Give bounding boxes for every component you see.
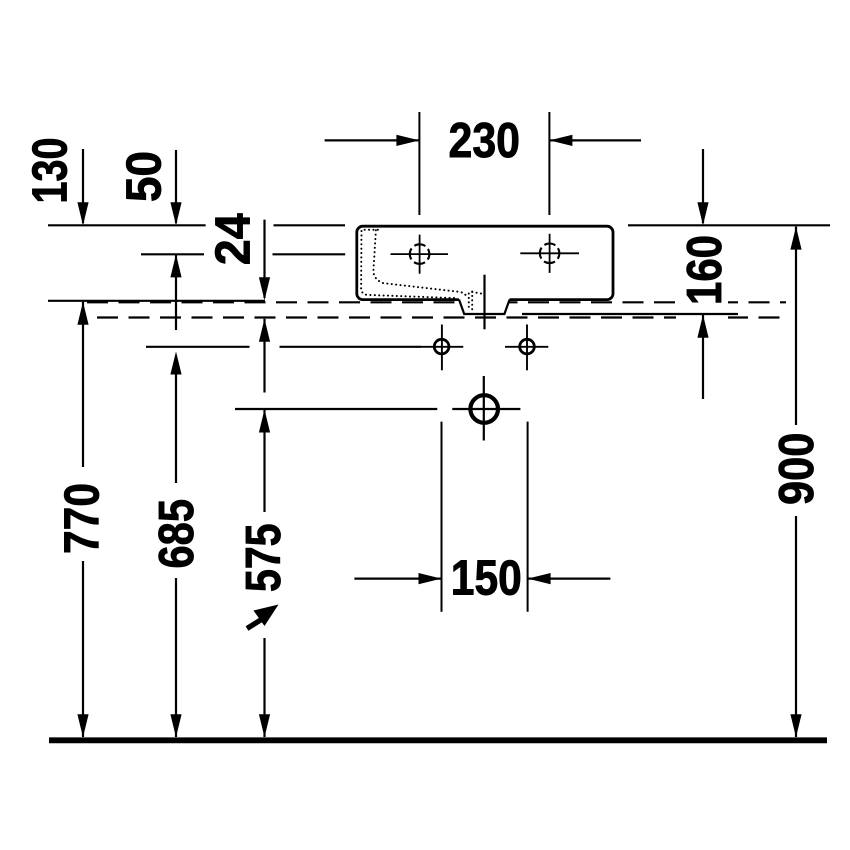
dim 685 up arrowhead xyxy=(170,352,181,375)
dim 160 up arrowhead xyxy=(697,315,708,338)
fixing hole right cross vertical xyxy=(526,325,528,371)
dim 24 up arrowhead xyxy=(259,319,270,342)
wire tick line for dim 685 (fixing hole level) left xyxy=(146,346,250,348)
fixing hole left cross vertical xyxy=(441,325,443,371)
wire dashed wall line lower xyxy=(97,316,786,318)
dim 900 shaft lower xyxy=(795,516,797,737)
basin hidden drain dotted vertical left xyxy=(468,294,470,311)
dim 230 extension line left xyxy=(418,112,420,215)
tap hole left dashed circle xyxy=(410,244,430,264)
white gap box behind label 160 xyxy=(676,295,728,322)
dim 130 upper shaft xyxy=(82,149,84,223)
dim 575 up arrowhead xyxy=(259,410,270,433)
svg-text:24: 24 xyxy=(207,213,261,265)
dim 900 shaft upper xyxy=(795,227,797,425)
dim 24 lower hanging shaft xyxy=(263,319,265,393)
dim 150 extension line right xyxy=(527,422,529,612)
dim 230 right arrow line xyxy=(550,139,641,141)
tap hole left cross vertical xyxy=(419,235,421,274)
dim 160 down arrowhead xyxy=(697,202,708,225)
wire tick line for dims 130/770 (basin bottom level) xyxy=(48,300,265,302)
wire tick line for dim 575 (drain level) xyxy=(235,408,437,410)
dim 150 right arrowhead xyxy=(528,573,551,584)
wire top reference line left segment (basin rim level) xyxy=(48,224,206,226)
dim 900 down arrowhead at floor xyxy=(790,714,801,737)
dim 770 shaft lower xyxy=(82,561,84,737)
dim 575 down arrowhead at floor xyxy=(259,714,270,737)
dim 230 right arrowhead pointing left xyxy=(396,135,419,146)
svg-text:150: 150 xyxy=(451,552,522,606)
dim 50 upper shaft xyxy=(175,150,177,223)
dim 230 left arrow line xyxy=(325,139,419,141)
fixing hole right cross horizontal xyxy=(505,346,548,348)
dim 230 extension line right xyxy=(548,112,550,215)
dim 770 shaft upper xyxy=(82,302,84,467)
dim 130 down arrowhead xyxy=(77,202,88,225)
svg-text:130: 130 xyxy=(24,138,78,204)
dim 685 shaft middle xyxy=(175,374,177,483)
svg-text:900: 900 xyxy=(770,433,824,505)
svg-text:770: 770 xyxy=(56,483,110,554)
wire tick line for dim 50 right part xyxy=(273,253,346,255)
dim 685 down arrowhead at floor xyxy=(170,714,181,737)
dim 160 upper shaft xyxy=(702,149,704,223)
wire dashed wall line upper xyxy=(87,301,786,303)
dim 575 shaft lower xyxy=(263,638,265,737)
basin hidden profile outer dotted xyxy=(361,230,458,298)
fixing hole right circle xyxy=(520,339,535,354)
dim 50 down arrowhead xyxy=(170,202,181,225)
dim 150 right arrow line xyxy=(528,577,610,579)
dim 575 adjustable diagonal arrow xyxy=(247,605,279,629)
tap hole right dashed circle xyxy=(540,244,560,264)
dim 150 left arrow line xyxy=(354,577,441,579)
drain outlet vertical cross xyxy=(483,376,485,441)
svg-text:50: 50 xyxy=(118,151,172,202)
svg-text:160: 160 xyxy=(678,235,732,305)
svg-text:230: 230 xyxy=(449,114,521,168)
dim 230 left arrowhead pointing right xyxy=(549,135,572,146)
svg-text:575: 575 xyxy=(237,524,291,593)
wire top reference line middle segment xyxy=(274,224,346,226)
dim 150 extension line left xyxy=(441,422,443,612)
drain trap white opening xyxy=(459,297,511,314)
dim 575 shaft upper xyxy=(263,410,265,513)
wire tick line for dim 685 right xyxy=(280,346,422,348)
dim 24 down arrowhead xyxy=(259,277,270,300)
basin hidden profile inner dotted xyxy=(373,230,467,299)
dim 685 shaft upper (from dim 50 arrow) xyxy=(175,254,177,330)
dim 24 upper shaft xyxy=(263,220,265,298)
basin hidden drain dotted stub right xyxy=(472,292,481,294)
dim 685 shaft lower xyxy=(175,578,177,737)
basin hidden drain dotted vertical right xyxy=(471,292,473,311)
floor line xyxy=(49,737,827,743)
tap hole right cross horizontal xyxy=(520,252,579,254)
wire tick line for dim 50 (tap hole level) left part xyxy=(141,253,204,255)
wire tick line for dim 160 xyxy=(522,313,738,315)
dim 150 left arrowhead xyxy=(419,573,442,584)
tap hole left cross horizontal xyxy=(391,253,449,255)
dim 900 up arrowhead xyxy=(790,227,801,250)
dim 770 down arrowhead at floor xyxy=(77,714,88,737)
svg-text:685: 685 xyxy=(150,499,204,569)
fixing hole left cross horizontal xyxy=(421,346,463,348)
dim 770 up arrowhead xyxy=(77,302,88,325)
fixing hole left circle xyxy=(434,339,449,354)
dim 160 lower hanging shaft xyxy=(702,315,704,399)
drain trap outline xyxy=(459,300,510,315)
wire drain cross horizontal right segment xyxy=(452,408,520,410)
drain outlet circle xyxy=(470,395,498,423)
drain trap center line xyxy=(483,275,485,330)
dim 50 up arrowhead xyxy=(170,254,181,277)
basin outline (side view) xyxy=(357,226,613,299)
wire top reference line right segment xyxy=(628,224,830,226)
tap hole right cross vertical xyxy=(549,234,551,273)
